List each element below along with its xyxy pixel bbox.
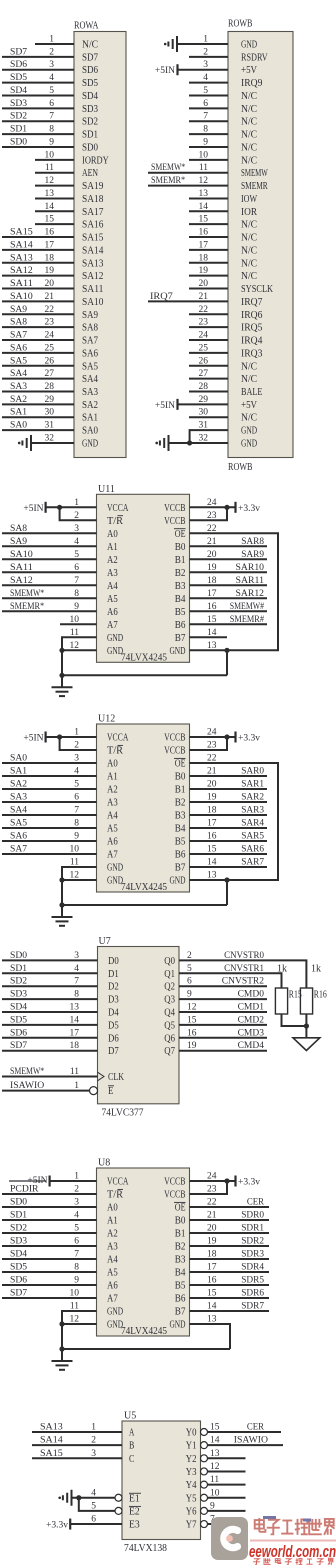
svg-text:SD4: SD4: [10, 1250, 27, 1260]
svg-text:SA5: SA5: [10, 356, 27, 366]
U5 inverting bubble on Y1: [201, 1442, 208, 1449]
svg-text:GND: GND: [82, 438, 98, 449]
svg-text:11: 11: [70, 1067, 79, 1077]
wire ground to U5 E1 pin 4: [72, 1497, 116, 1499]
svg-text:10: 10: [199, 150, 209, 160]
wire stub ROWB pin 23: [189, 326, 228, 328]
wire U11 pin 12 GND: [62, 649, 97, 651]
svg-text:30: 30: [45, 408, 55, 418]
junction +3.3v at U8: [224, 1178, 229, 1183]
U7 clock symbol and CLK label: [98, 1072, 105, 1081]
svg-text:17: 17: [70, 1028, 80, 1038]
svg-text:E: E: [108, 1086, 113, 1097]
ground rail of U12: [62, 904, 227, 906]
svg-text:R16: R16: [314, 990, 327, 1001]
svg-text:SA12: SA12: [82, 271, 103, 282]
svg-text:B0: B0: [175, 1216, 186, 1227]
svg-text:B1: B1: [175, 1229, 186, 1240]
wire net SA6 to ROWA pin 25: [2, 352, 74, 354]
ground at ROWA pin 32: [22, 435, 31, 451]
svg-text:23: 23: [45, 318, 55, 328]
svg-text:CMD4: CMD4: [238, 1041, 265, 1051]
svg-text:GND: GND: [241, 426, 257, 437]
wire net SD6 to U8 pin 9: [2, 1284, 97, 1286]
svg-text:5: 5: [49, 86, 54, 96]
svg-text:IRQ9: IRQ9: [241, 78, 262, 89]
wire net SD7 to U7 pin 18: [2, 1050, 98, 1052]
wire U11 GND down to rail: [61, 650, 63, 675]
svg-text:CNVSTR2: CNVSTR2: [222, 977, 264, 987]
svg-text:15: 15: [199, 215, 209, 225]
svg-text:21: 21: [199, 292, 209, 302]
svg-text:SA2: SA2: [82, 400, 98, 411]
wire U11 pin 13 junction down to rail: [226, 650, 228, 675]
wire U11 pin 24 to +3.3v: [190, 506, 236, 508]
svg-text:1k: 1k: [311, 964, 321, 975]
wire net SD4 to ROWA pin 5: [2, 94, 74, 96]
svg-text:1k: 1k: [277, 964, 287, 975]
wire net SD1 to U7 pin 4: [2, 972, 98, 974]
svg-text:SAR0: SAR0: [241, 767, 264, 777]
svg-text:SD1: SD1: [10, 1211, 27, 1221]
svg-text:D0: D0: [108, 956, 119, 967]
junction U8 ground rail: [59, 1346, 64, 1351]
wire net SA3 to ROWA pin 28: [2, 390, 74, 392]
junction +5IN at U11: [57, 505, 62, 510]
wire net SA10 to ROWA pin 21: [2, 300, 74, 302]
svg-text:SAR2: SAR2: [241, 793, 264, 803]
svg-text:SD3: SD3: [10, 990, 27, 1000]
svg-text:GND: GND: [107, 646, 123, 657]
wire net SD2 to ROWA pin 7: [2, 120, 74, 122]
svg-text:AEN: AEN: [82, 168, 98, 179]
U5 inverting bubble on Y0: [201, 1429, 208, 1436]
IC U11 74LVX4245 body: [97, 494, 190, 662]
svg-text:Q1: Q1: [164, 969, 175, 980]
svg-text:SD4: SD4: [10, 86, 27, 96]
svg-text:A5: A5: [107, 1268, 118, 1279]
svg-text:SD6: SD6: [10, 60, 27, 70]
svg-text:29: 29: [199, 395, 209, 405]
svg-text:SA15: SA15: [10, 228, 33, 238]
wire net SDR6 to U8 pin 15: [190, 1297, 270, 1299]
wire net SA6 to U12 pin 9: [2, 840, 97, 842]
svg-text:SMEMW*: SMEMW*: [151, 163, 185, 173]
svg-text:IORDY: IORDY: [82, 155, 109, 166]
svg-text:27: 27: [45, 369, 55, 379]
svg-text:SD2: SD2: [10, 112, 27, 122]
U5 inverting bubble on Y5: [201, 1494, 208, 1501]
power port +3.3v at U8: [234, 1176, 236, 1187]
wire +3.3v to U5 E3 pin 6: [70, 1523, 122, 1525]
wire net SA11 to U11 pin 6: [2, 571, 97, 573]
ground rail of U8: [62, 1348, 230, 1350]
svg-text:Y7: Y7: [186, 1520, 197, 1531]
wire +5IN to U12 pins 1 and 2: [46, 736, 97, 738]
svg-text:28: 28: [45, 382, 55, 392]
svg-text:SA11: SA11: [10, 279, 33, 289]
wire ROWB pin 31 GND down to pin 32 wire: [190, 430, 228, 443]
wire stub ROWB pin 24: [189, 339, 228, 341]
svg-text:SA3: SA3: [10, 793, 27, 803]
svg-text:19: 19: [45, 266, 55, 276]
junction R15/R16 ground node: [304, 1023, 309, 1028]
svg-text:A0: A0: [107, 759, 118, 770]
wire net SAR7 to U12 pin 14: [190, 866, 268, 868]
wire net SA7 to ROWA pin 24: [2, 339, 74, 341]
svg-text:SA12: SA12: [10, 576, 33, 586]
svg-text:VCCB: VCCB: [164, 1177, 185, 1188]
svg-text:SA5: SA5: [10, 819, 27, 829]
svg-text:B7: B7: [175, 633, 186, 644]
wire stub U5 Y2: [208, 1457, 246, 1459]
svg-text:VCCA: VCCA: [107, 733, 129, 744]
wire net SA2 to U12 pin 5: [2, 788, 97, 790]
svg-text:VCCA: VCCA: [107, 503, 129, 514]
svg-text:18: 18: [45, 253, 55, 263]
wire net CMD4 to U7 pin 19: [179, 1050, 267, 1052]
svg-text:N/C: N/C: [241, 271, 257, 282]
ground symbol of U11: [61, 675, 63, 687]
wire net CNVSTR0 to U7 pin 2 and to R16: [179, 960, 306, 988]
svg-text:SA19: SA19: [82, 181, 103, 192]
svg-text:A1: A1: [107, 772, 118, 783]
wire net CNVSTR1 to U7 pin 5 and to R15: [179, 973, 282, 988]
junction U5 E1/E2 ground: [76, 1495, 81, 1500]
wire stub ROWA pin 13: [35, 197, 74, 199]
svg-text:8: 8: [49, 125, 54, 135]
svg-text:SAR7: SAR7: [241, 858, 264, 868]
svg-text:ISAWIO: ISAWIO: [234, 1436, 268, 1446]
svg-text:7: 7: [203, 112, 208, 122]
svg-text:17: 17: [199, 240, 209, 250]
svg-text:B7: B7: [175, 863, 186, 874]
wire net SA13 to U5 pin 1: [32, 1431, 122, 1433]
wire net ISAWIO to U7 E pin 1: [2, 1090, 90, 1092]
svg-text:SDR1: SDR1: [241, 1224, 264, 1234]
svg-text:E3: E3: [129, 1520, 140, 1531]
svg-text:N/C: N/C: [241, 130, 257, 141]
svg-text:SD6: SD6: [10, 1276, 27, 1286]
wire U8 pin 11 GND: [62, 1311, 97, 1324]
svg-text:B4: B4: [175, 594, 186, 605]
svg-text:12: 12: [199, 176, 209, 186]
svg-text:B0: B0: [175, 772, 186, 783]
svg-text:IRQ5: IRQ5: [241, 323, 262, 334]
wire net SD7 to U8 pin 10: [2, 1297, 97, 1299]
svg-text:4: 4: [74, 964, 79, 974]
svg-text:SD5: SD5: [10, 73, 27, 83]
junction U11 pin 13 to ground rail: [224, 648, 229, 653]
wire net SA12 to U11 pin 7: [2, 584, 97, 586]
IC U8 74LVX4245 body: [97, 1168, 190, 1336]
svg-text:SA6: SA6: [82, 348, 98, 359]
wire net SA8 to ROWA pin 23: [2, 326, 74, 328]
svg-text:A0: A0: [107, 529, 118, 540]
svg-text:B6: B6: [175, 850, 186, 861]
svg-text:GND: GND: [107, 633, 123, 644]
svg-text:Q5: Q5: [164, 1020, 175, 1031]
svg-text:26: 26: [45, 356, 55, 366]
U5 inverting bubble on Y7: [201, 1521, 208, 1528]
svg-text:17: 17: [45, 240, 55, 250]
svg-text:13: 13: [45, 189, 55, 199]
wire stub ROWB pin 5: [189, 94, 228, 96]
wire net SA3 to U12 pin 6: [2, 801, 97, 803]
ground at U5 E1/E2: [63, 1490, 72, 1506]
wire net SAR5 to U12 pin 16: [190, 840, 268, 842]
svg-text:16: 16: [199, 228, 209, 238]
wire net SMEMR* to U11 pin 9: [2, 610, 97, 612]
wire net SAR10 to U11 pin 19: [190, 571, 268, 573]
svg-text:GND: GND: [241, 438, 257, 449]
junction U11 GND pins 11/12: [59, 648, 64, 653]
svg-text:U11: U11: [98, 484, 115, 495]
svg-text:SA13: SA13: [82, 258, 103, 269]
svg-text:24: 24: [45, 331, 55, 341]
wire net SDR7 to U8 pin 14: [190, 1310, 270, 1312]
connector ROWB: [228, 32, 293, 458]
svg-text:D4: D4: [108, 1008, 119, 1019]
wire net SA15 to U5 pin 3: [32, 1457, 122, 1459]
svg-text:Y6: Y6: [186, 1506, 197, 1517]
wire net SMEMW# to U11 pin 16: [190, 610, 268, 612]
svg-text:SA9: SA9: [82, 310, 98, 321]
ground at ROWB pin 32: [160, 435, 169, 451]
svg-text:VCCB: VCCB: [164, 733, 185, 744]
svg-text:SMEMR*: SMEMR*: [10, 602, 44, 612]
wire stub ROWB pin 26: [189, 365, 228, 367]
svg-text:SA11: SA11: [10, 563, 33, 573]
svg-text:SD3: SD3: [10, 1237, 27, 1247]
wire net SA2 to ROWA pin 29: [2, 403, 74, 405]
svg-text:SA14: SA14: [40, 1436, 63, 1446]
svg-text:SA3: SA3: [82, 387, 98, 398]
U5 inverting bubble on Y3: [201, 1468, 208, 1475]
wire net SDR4 to U8 pin 17: [190, 1271, 270, 1273]
svg-text:Q6: Q6: [164, 1033, 175, 1044]
svg-text:11: 11: [199, 163, 208, 173]
svg-text:SA0: SA0: [10, 421, 27, 431]
wire net SD3 to U7 pin 8: [2, 998, 98, 1000]
power port +3.3v at U12: [234, 732, 236, 743]
svg-text:B4: B4: [175, 1268, 186, 1279]
svg-text:B2: B2: [175, 798, 186, 809]
svg-text:20: 20: [199, 279, 209, 289]
svg-text:OE: OE: [175, 1203, 186, 1214]
wire net SMEMR* to ROWB pin 12: [148, 185, 228, 187]
svg-text:R15: R15: [289, 990, 302, 1001]
svg-text:SA13: SA13: [10, 253, 33, 263]
svg-text:16: 16: [45, 228, 55, 238]
svg-text:SA5: SA5: [82, 361, 98, 372]
svg-text:SAR1: SAR1: [241, 780, 264, 790]
wire net CER to U5 Y0 pin 15: [208, 1431, 282, 1433]
svg-text:N/C: N/C: [241, 220, 257, 231]
svg-text:21: 21: [45, 292, 55, 302]
wire net SMEMW* to ROWB pin 11: [148, 172, 228, 174]
wire net SA7 to U12 pin 10: [2, 853, 97, 855]
wire net SA1 to U12 pin 4: [2, 775, 97, 777]
svg-text:N/C: N/C: [241, 374, 257, 385]
svg-text:U7: U7: [99, 936, 111, 947]
wire U8 pin 13 GND to rail: [190, 1324, 231, 1349]
svg-text:GND: GND: [241, 40, 257, 51]
svg-text:SA13: SA13: [40, 1423, 63, 1433]
svg-text:SD6: SD6: [10, 1028, 27, 1038]
svg-text:Q3: Q3: [164, 995, 175, 1006]
svg-text:E2: E2: [129, 1506, 140, 1517]
svg-text:6: 6: [203, 99, 208, 109]
svg-text:30: 30: [199, 408, 209, 418]
junction U8 GND pins 11/12: [59, 1321, 64, 1326]
wire stub ROWB pin 25: [189, 352, 228, 354]
svg-text:SAR6: SAR6: [241, 845, 264, 855]
wire U8 GND down to rail: [61, 1324, 63, 1349]
wire stub ROWB pin 27: [189, 378, 228, 380]
wire net SDR3 to U8 pin 18: [190, 1258, 270, 1260]
svg-text:+5V: +5V: [241, 400, 257, 411]
svg-text:CMD3: CMD3: [238, 1028, 265, 1038]
wire stub ROWB pin 18: [189, 262, 228, 264]
svg-text:26: 26: [199, 356, 209, 366]
wire net SA4 to ROWA pin 27: [2, 378, 74, 380]
svg-text:1: 1: [203, 35, 208, 45]
junction +3.3v at U12: [224, 734, 229, 739]
svg-text:B5: B5: [175, 607, 186, 618]
IC U5 74LVX138 body: [122, 1421, 201, 1540]
svg-text:5: 5: [203, 86, 208, 96]
wire net SD5 to U7 pin 14: [2, 1024, 98, 1026]
svg-text:Q4: Q4: [164, 1008, 175, 1019]
svg-text:A: A: [129, 1428, 135, 1439]
svg-text:3: 3: [74, 951, 79, 961]
IC U12 74LVX4245 body: [97, 724, 190, 892]
wire net SD2 to U7 pin 7: [2, 985, 98, 987]
wire U12 pin 23 to pin 24: [190, 737, 228, 750]
ground symbol of U8: [61, 1349, 63, 1361]
wire stub U5 Y6: [208, 1510, 246, 1512]
svg-text:A2: A2: [107, 785, 118, 796]
svg-text:Y3: Y3: [186, 1467, 197, 1478]
svg-text:+5IN: +5IN: [155, 401, 175, 411]
svg-text:SA2: SA2: [10, 780, 27, 790]
wire stub ROWB pin 22: [189, 313, 228, 315]
wire stub ROWB pin 4: [189, 82, 228, 84]
wire U12 pin 13 junction down to rail: [226, 880, 228, 905]
svg-text:CER: CER: [247, 1198, 265, 1208]
svg-text:D7: D7: [108, 1046, 119, 1057]
wire stub ROWB pin 2: [189, 56, 228, 58]
svg-text:SD1: SD1: [10, 125, 27, 135]
wire stub ROWA pin 1: [35, 43, 74, 45]
wire stub ROWA pin 14: [35, 210, 74, 212]
svg-text:22: 22: [199, 305, 209, 315]
svg-text:74LVX4245: 74LVX4245: [121, 652, 167, 663]
wire net SA9 to ROWA pin 22: [2, 313, 74, 315]
svg-text:SA11: SA11: [82, 284, 103, 295]
wire net SMEMW* to U7 CLK pin 11: [2, 1076, 98, 1078]
svg-text:A1: A1: [107, 1216, 118, 1227]
svg-text:N/C: N/C: [241, 142, 257, 153]
wire net SA12 to ROWA pin 19: [2, 275, 74, 277]
wire stub ROWA pin 10: [35, 159, 74, 161]
svg-text:+3.3v: +3.3v: [238, 504, 260, 514]
wire stub U5 Y7: [208, 1523, 246, 1525]
svg-text:13: 13: [199, 189, 209, 199]
svg-text:SAR10: SAR10: [236, 563, 265, 573]
svg-text:23: 23: [199, 318, 209, 328]
svg-text:B3: B3: [175, 581, 186, 592]
svg-text:SA1: SA1: [10, 408, 27, 418]
U5 inverting bubble on Y6: [201, 1507, 208, 1514]
svg-text:SA7: SA7: [10, 331, 27, 341]
svg-text:SMEMR#: SMEMR#: [230, 615, 264, 625]
wire net SA15 to ROWA pin 16: [2, 236, 74, 238]
svg-text:GND: GND: [107, 1307, 123, 1318]
svg-text:32: 32: [199, 433, 209, 443]
svg-text:GND: GND: [107, 1320, 123, 1331]
wire stub ROWB pin 15: [189, 223, 228, 225]
svg-text:N/C: N/C: [241, 117, 257, 128]
svg-text:SA0: SA0: [10, 754, 27, 764]
wire net SAR12 to U11 pin 17: [190, 597, 268, 599]
svg-text:N/C: N/C: [241, 233, 257, 244]
svg-text:B4: B4: [175, 824, 186, 835]
svg-text:+5IN: +5IN: [23, 734, 43, 744]
svg-text:T/R: T/R: [107, 516, 123, 527]
svg-text:A5: A5: [107, 824, 118, 835]
svg-text:Q2: Q2: [164, 982, 175, 993]
wire net SA10 to U11 pin 5: [2, 558, 97, 560]
wire U8 pin 12 GND: [62, 1323, 97, 1325]
svg-text:U5: U5: [124, 1411, 136, 1422]
svg-text:SD3: SD3: [82, 104, 98, 115]
svg-text:29: 29: [45, 395, 55, 405]
svg-text:D1: D1: [108, 969, 119, 980]
svg-text:B1: B1: [175, 785, 186, 796]
svg-text:6: 6: [91, 1515, 96, 1525]
svg-text:GND: GND: [169, 876, 185, 887]
svg-text:27: 27: [199, 369, 209, 379]
svg-text:Q0: Q0: [164, 956, 175, 967]
watermark logo eeworld: [211, 1517, 248, 1560]
ground symbol of U12: [61, 905, 63, 917]
junction +3.3v at U11: [224, 505, 229, 510]
svg-text:3: 3: [91, 1449, 96, 1459]
wire stub ROWB pin 30: [189, 416, 228, 418]
svg-text:+5IN: +5IN: [23, 504, 43, 514]
svg-text:SAR9: SAR9: [241, 550, 264, 560]
svg-text:3: 3: [49, 60, 54, 70]
svg-text:SDR7: SDR7: [241, 1302, 264, 1312]
svg-text:SA10: SA10: [82, 297, 103, 308]
wire U12 pin 11 GND: [62, 867, 97, 880]
svg-text:IRQ3: IRQ3: [241, 348, 262, 359]
svg-text:VCCB: VCCB: [164, 503, 185, 514]
svg-text:VCCB: VCCB: [164, 746, 185, 757]
svg-text:RSDRV: RSDRV: [241, 52, 268, 63]
wire U5 E2 pin 5 to ground junction: [79, 1498, 115, 1511]
wire R16 bottom to ground: [305, 1014, 307, 1038]
svg-text:74LVC377: 74LVC377: [102, 1108, 144, 1119]
svg-text:SDR2: SDR2: [241, 1237, 264, 1247]
wire net IRQ7 to ROWB pin 21: [148, 300, 228, 302]
wire net CMD1 to U7 pin 12: [179, 1011, 267, 1013]
wire net SD7 to ROWA pin 2: [2, 56, 74, 58]
svg-text:SD7: SD7: [82, 52, 98, 63]
watermark title text: [250, 1516, 336, 1542]
